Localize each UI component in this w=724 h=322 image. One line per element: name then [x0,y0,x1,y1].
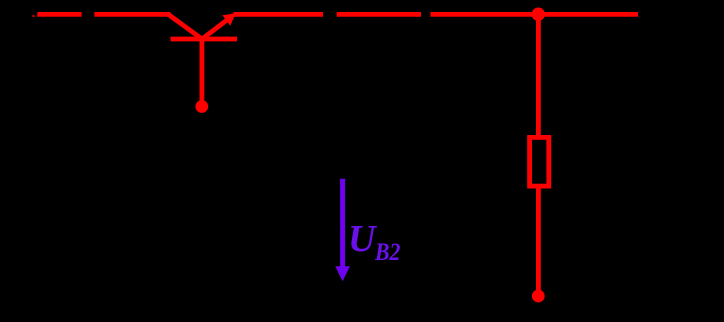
wire top rail segment 3 [234,12,324,17]
node bottom terminal dot [532,290,545,303]
wire collector branch upper [536,14,541,137]
resistor R2 [530,137,549,186]
voltage arrow UB2 [335,179,350,282]
wire top rail segment 2 [94,12,170,17]
node base terminal dot [195,100,208,113]
transistor T2 base bar [171,37,238,42]
transistor T2 collector arrowhead [222,13,236,26]
label U_B2 [348,217,405,267]
node junction dot on top rail [532,8,545,21]
transistor T2 collector [202,20,227,39]
wire top rail segment 1 [37,12,81,17]
transistor T2 base lead wire [199,39,204,101]
wire top rail segment 4 [337,12,421,17]
wire collector branch lower [536,186,541,290]
transistor T2 emitter [168,14,202,39]
wire top rail segment 5 [431,12,639,17]
wire top rail left speck [32,15,35,18]
